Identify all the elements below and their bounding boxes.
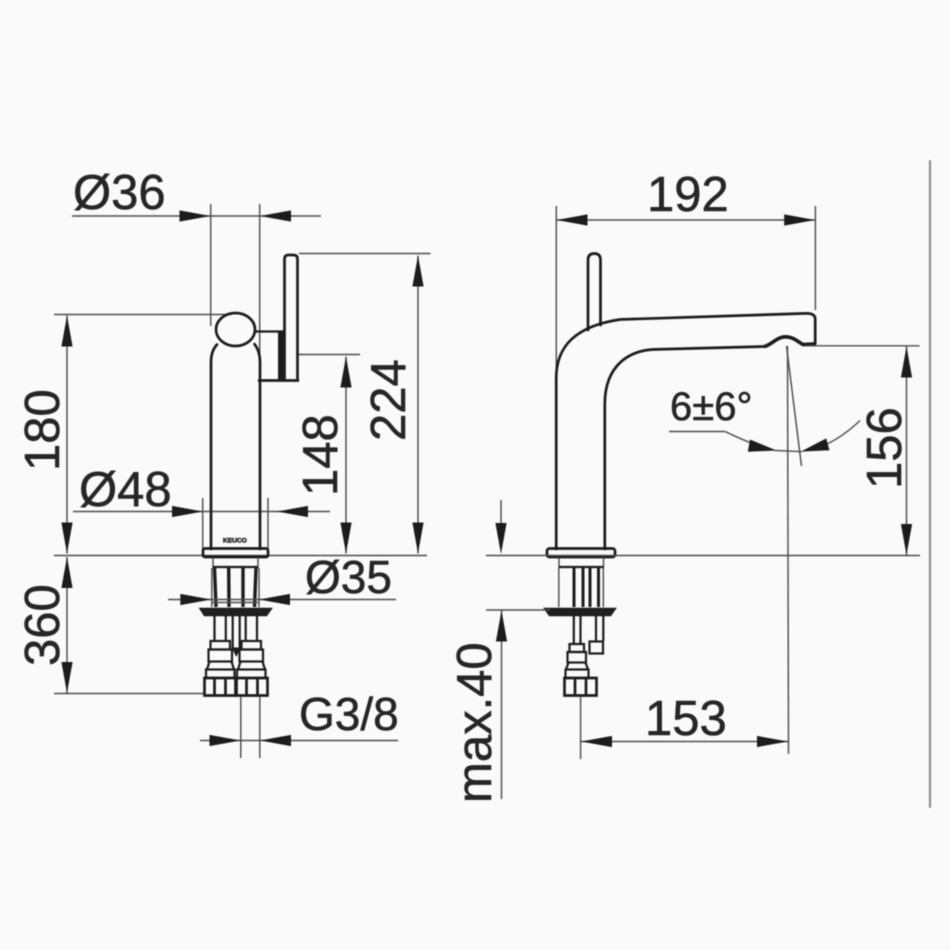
base flange side [547,549,615,558]
dim label 153 [645,692,727,746]
extension line Ø48 right [267,498,269,556]
svg-text:156: 156 [858,407,912,489]
arrow angle left [748,440,777,452]
angle label underline [669,431,725,433]
arrow Ø35 left [180,594,211,605]
arrow 360 top [61,557,72,588]
lever blade front view [285,255,298,380]
side rods below escutcheon [574,616,604,644]
arrow 148 bottom [340,523,351,554]
arrow 224 bottom [412,523,423,554]
arrow Ø48 left [172,506,203,517]
extension line Ø36 right [259,204,261,378]
svg-text:Ø36: Ø36 [73,166,166,220]
dim label 360 (rotated) [16,584,70,666]
arrow 148 top [340,357,351,388]
G3/8 connection pipe lines [241,697,260,758]
svg-text:KEUCO: KEUCO [223,538,247,545]
dim label 180 (rotated) [16,389,70,471]
dim line 180 [66,316,68,554]
arrow 224 top [412,256,423,287]
right supply rod [246,616,257,641]
extension line Ø36 left [210,204,212,326]
dim label G3/8 [299,688,399,740]
dim line 360 [66,557,68,693]
extension line max.40 [486,609,550,611]
threaded shaft bars front [215,568,257,607]
dim line Ø36 [72,215,321,217]
extension line 148 [299,354,361,356]
lever side view [588,254,601,331]
dim line Ø48 [73,511,330,513]
dim line 156 [906,347,908,556]
extension line 192 right [814,206,816,310]
svg-text:360: 360 [16,584,70,666]
dim line Ø35 [168,599,396,601]
KEUCO logo [223,538,247,545]
extension line 153 right / angle reference vertical [788,346,789,754]
arrow G3/8 right [260,735,291,746]
dim label 148 (rotated) [294,414,348,496]
dim line G3/8 [200,740,398,742]
arrow G3/8 left [210,735,241,746]
dim label 6±6° [670,385,752,429]
extension line 156 top [806,345,920,347]
dim line 192 [557,219,816,221]
svg-text:max.40: max.40 [448,642,502,803]
extension line 224 [299,253,431,255]
side hose line [580,696,582,759]
collar below flange front [213,558,259,568]
dim label max.40 (rotated) [448,642,502,803]
threaded shaft bars side [574,568,599,607]
left supply rod [215,616,226,641]
svg-text:148: 148 [294,414,348,496]
arrow 360 bottom [61,662,72,693]
angle leader curve right [826,421,860,445]
svg-text:180: 180 [16,389,70,471]
arrow Ø36 right [260,210,291,221]
dim line 153 [581,741,788,743]
arrow angle right [801,438,830,451]
base flange front [203,549,268,558]
faucet body right edge [255,344,261,549]
dim label Ø35 [305,551,392,603]
arrow 156 bottom [901,524,912,555]
faucet body left edge [211,345,217,550]
angle leader curve left [725,432,750,443]
escutcheon plate side [545,609,616,616]
dim label 156 (rotated) [858,407,912,489]
svg-text:Ø35: Ø35 [305,551,392,603]
max.40 lower line [501,611,503,800]
extension line Ø48 left [202,498,204,556]
baseline under side view [486,555,920,557]
shaft outer edge side [559,568,604,607]
handle base step line [259,379,298,382]
drain pull rod [232,616,242,657]
side hose nut [565,678,597,696]
shaft step line front [212,602,258,604]
arrow 192 left [557,214,588,225]
arrow max.40 down [495,523,506,554]
arrow Ø36 left [180,210,211,221]
svg-text:224: 224 [362,359,416,441]
arrow 156 top [901,347,912,378]
svg-text:153: 153 [645,692,727,746]
dim label 224 (rotated) [362,359,416,441]
arrow 153 left [581,736,612,747]
dim label Ø48 [79,463,172,517]
arrow Ø48 right [277,506,308,517]
angle arc segment [774,450,802,451]
dim line 224 [417,256,419,554]
left rod coupling steps [206,641,235,678]
extension line 180 top [54,314,231,316]
svg-text:Ø48: Ø48 [79,463,172,517]
left hose nut [205,678,236,696]
spout body inner contour [605,347,764,550]
collar below flange side [559,558,605,568]
angle slanted line 6deg [787,346,802,466]
svg-text:6±6°: 6±6° [670,385,752,429]
svg-text:G3/8: G3/8 [299,688,399,740]
right hose nut [237,678,268,696]
side coupling steps [566,642,604,679]
arrow 180 top [61,316,72,347]
arrow Ø35 right [259,594,290,605]
aerator bump [764,337,815,347]
handle hub dark band [278,332,285,380]
baseline under front view [54,555,427,557]
page artifact vertical gray line [929,161,931,807]
arrow 153 right [757,736,788,747]
dim label Ø36 [73,166,166,220]
lever pivot ellipse [216,313,255,346]
dim label 192 [647,168,729,222]
arrow 180 bottom [61,523,72,554]
dim line 148 [345,357,347,554]
handle connector top line [254,330,285,332]
max.40 upper line [500,500,502,549]
extension line 192 left [555,206,557,368]
right rod coupling steps [237,641,266,678]
spout body outer contour [556,313,815,549]
extension line 360 bottom [54,693,204,695]
threaded shaft outer edges front [212,568,259,607]
escutcheon plate front [200,609,272,616]
arrow max.40 up [496,611,507,642]
svg-text:192: 192 [647,168,729,222]
arrow 192 right [784,214,815,225]
